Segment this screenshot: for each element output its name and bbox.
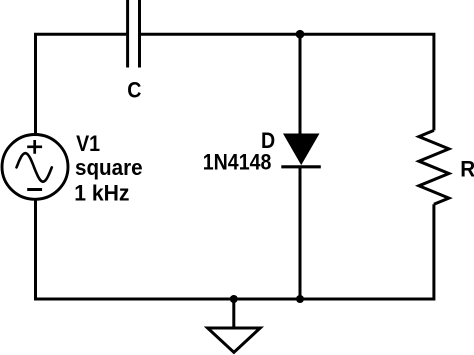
wire: top junction to resistor top (300, 34, 434, 130)
diode D triangle (anode) (283, 134, 320, 166)
capacitor C left plate (126, 0, 129, 68)
junction dot: bottom diode node (296, 295, 304, 303)
capacitor C right plate (138, 0, 141, 68)
resistor R zigzag (419, 130, 449, 204)
wire: bottom diode node to ground node (234, 298, 300, 301)
ground stub wire (232, 299, 235, 328)
ground symbol triangle (208, 328, 261, 352)
svg-text:V1: V1 (76, 132, 100, 156)
wire: resistor bottom to bottom-right corner to diode bottom node (300, 204, 434, 299)
svg-text:C: C (127, 78, 141, 102)
svg-text:square: square (75, 155, 143, 180)
svg-text:1 kHz: 1 kHz (74, 180, 129, 206)
junction dot: ground node (230, 295, 238, 303)
svg-text:1N4148: 1N4148 (203, 151, 272, 175)
voltage source plus sign (27, 140, 42, 154)
junction dot: top node (296, 30, 305, 39)
svg-text:R: R (460, 157, 474, 182)
wire: ground node to bottom-left corner to V1 bottom (36, 199, 234, 299)
wire: capacitor right plate to top junction (141, 33, 300, 36)
diode D cathode bar (281, 165, 321, 168)
voltage source minus sign (27, 188, 42, 191)
voltage source sine wave (17, 153, 52, 182)
wire: left branch, V1 top to capacitor left plate (36, 34, 127, 135)
wire: diode cathode to bottom node (299, 167, 302, 299)
voltage source V1 circle (2, 135, 68, 200)
wire: top junction to diode anode (299, 34, 302, 134)
